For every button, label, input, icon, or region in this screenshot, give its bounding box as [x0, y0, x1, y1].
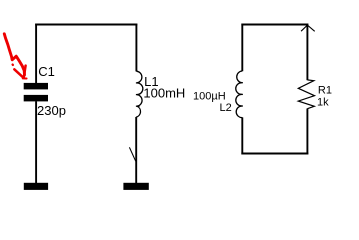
wire: C1 top lead — [35, 24, 37, 84]
ground (left, under C1) — [24, 183, 48, 190]
svg-text:100µH: 100µH — [193, 91, 226, 103]
capacitor C1 (top plate) — [24, 83, 48, 90]
capacitor C1 (bottom plate) — [24, 95, 48, 102]
wire: L2 bottom lead — [241, 117, 243, 154]
wire: top wire of right circuit — [241, 24, 308, 26]
wire: L2 top lead — [241, 24, 243, 72]
wire: top wire of left tank circuit — [35, 24, 137, 26]
wire: R1 bottom lead — [306, 109, 308, 155]
svg-text:100mH: 100mH — [143, 85, 185, 100]
svg-text:C1: C1 — [38, 64, 55, 79]
wire: R1 top lead — [306, 24, 308, 81]
inductor L2 — [236, 71, 243, 118]
wire: L1 top lead — [135, 24, 137, 72]
svg-text:1k: 1k — [317, 96, 329, 108]
svg-text:R1: R1 — [318, 85, 332, 97]
svg-text:L2: L2 — [220, 102, 232, 114]
resistor R1 — [298, 80, 314, 109]
svg-text:230p: 230p — [37, 103, 66, 118]
wire: bottom wire of right circuit — [241, 153, 308, 155]
inductor L1 — [136, 71, 143, 117]
wire: L1 bottom lead — [135, 117, 137, 183]
wire: C1 bottom lead — [35, 101, 37, 183]
arrowhead at top of R1 branch — [301, 25, 315, 31]
ground (under L1) — [123, 183, 148, 190]
switch blade diagonal at L1 bottom — [129, 147, 135, 161]
red annotation arrow (hand-drawn scribble) — [4, 34, 26, 79]
